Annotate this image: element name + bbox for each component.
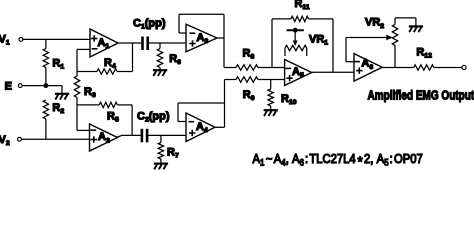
op-amp A5 (285, 60, 312, 86)
resistor R9 (225, 79, 237, 81)
wire A3 output (217, 37, 224, 39)
resistor R7 (160, 135, 162, 142)
wire A4 feedback loop (178, 121, 186, 123)
wire C1 to A3 (149, 42, 186, 44)
resistor R4 (77, 71, 97, 73)
node E junction (44, 84, 48, 88)
wire A4 output (215, 126, 225, 128)
wire to ground (61, 86, 63, 94)
op-amp A2 (90, 124, 118, 151)
ground (R10) (264, 109, 278, 111)
wire E line (22, 85, 62, 87)
resistor R11 feedback (271, 19, 273, 68)
ground (VR2) (409, 25, 423, 27)
svg-text:C2(pp): C2(pp) (137, 110, 170, 123)
svg-text:Amplified EMG Output: Amplified EMG Output (368, 88, 474, 103)
resistor R3 (74, 76, 79, 98)
resistor R6 (159, 43, 161, 49)
resistor R1 (45, 39, 47, 48)
op-amp A3 (186, 24, 217, 52)
capacitor C1 (141, 37, 144, 51)
wires: V1 input line (23, 38, 90, 40)
wire A1 inverting input (77, 48, 90, 50)
wire A5 output (312, 71, 354, 73)
svg-text:E: E (5, 81, 12, 93)
terminal V2 (18, 137, 22, 141)
wire V2 line (21, 138, 89, 140)
ground (R6) (153, 69, 167, 71)
wire A2 inverting input (77, 129, 90, 131)
wire A1 output (118, 42, 141, 44)
capacitor C2 (141, 129, 144, 143)
resistor R5 (77, 104, 99, 106)
resistor R8 (224, 67, 236, 69)
terminal E (18, 84, 22, 88)
svg-text:C1(pp): C1(pp) (133, 17, 166, 30)
resistor R10 (270, 80, 272, 90)
wire A3 feedback loop (179, 32, 186, 34)
resistor R2 (43, 100, 48, 119)
op-amp A4 (186, 113, 215, 142)
op-amp A6 (354, 54, 382, 82)
wire A6 output (382, 67, 414, 69)
terminal output (462, 65, 466, 69)
ground (R7) (154, 163, 168, 165)
wire C2 to A4 (148, 134, 186, 136)
terminal V1 (19, 38, 23, 42)
wire A2 output (118, 135, 142, 137)
potentiometer VR1 (287, 29, 304, 31)
potentiometer VR2 (392, 24, 397, 45)
op-amp A1 (90, 29, 118, 57)
ground (E) (55, 93, 69, 95)
wire A6 feedback to VR2 wiper (346, 61, 354, 63)
resistor R12 (414, 65, 434, 70)
